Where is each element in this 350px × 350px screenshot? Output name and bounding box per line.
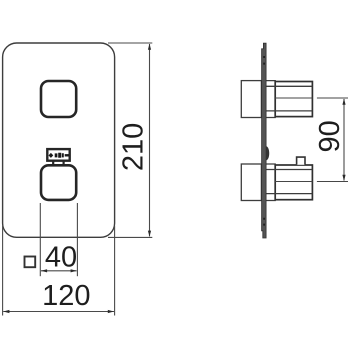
svg-text:120: 120 bbox=[42, 280, 90, 312]
handle H2 outer (lower, side view) bbox=[275, 165, 312, 200]
dimension 120 arrow right bbox=[108, 310, 114, 313]
front plate bbox=[3, 43, 115, 237]
temperature label plate L1 bbox=[47, 149, 69, 161]
knob K1 (upper square handle, front view) bbox=[41, 81, 76, 117]
wall plate profile bar bbox=[262, 43, 267, 238]
collar C2 (lower, side view) bbox=[266, 164, 275, 201]
dimension 210 arrow up bbox=[148, 44, 151, 50]
dimension 120 arrow left bbox=[3, 310, 9, 313]
dimension 40 arrow right bbox=[71, 269, 77, 272]
dimension 40 extension line right bbox=[76, 203, 78, 276]
handle H1 step lines bbox=[266, 86, 312, 111]
scale marks on label bbox=[55, 153, 64, 158]
dimension 40 line bbox=[41, 270, 77, 272]
svg-text:90: 90 bbox=[314, 120, 346, 152]
dimension 210 extension line top bbox=[108, 42, 152, 44]
tab on handle H2 bbox=[297, 157, 305, 165]
side view: valve body box B2 (lower, behind wall) bbox=[241, 164, 261, 201]
dimension 40 arrow left bbox=[41, 269, 47, 272]
dimension 210 arrow down bbox=[148, 231, 151, 237]
dimension 90 arrow up bbox=[342, 99, 345, 105]
collar C1 (upper, side view) bbox=[266, 81, 275, 118]
handle H2 step lines bbox=[266, 170, 312, 194]
dimension 90 arrow down bbox=[342, 175, 345, 181]
side view: valve body box B1 (upper, behind wall) bbox=[241, 81, 261, 118]
center/extension line lower (90 dim) bbox=[275, 181, 348, 183]
temperature button bump (side view) bbox=[266, 146, 269, 160]
handle H1 outer (upper, side view) bbox=[275, 82, 312, 117]
diamond mark on label bbox=[49, 153, 54, 158]
svg-text:40: 40 bbox=[45, 242, 77, 274]
dimension 120 extension line right bbox=[114, 226, 116, 316]
knob K2 (lower square handle, front view) bbox=[41, 165, 76, 200]
dimension 90 line bbox=[343, 99, 345, 181]
dash mark on label bbox=[65, 154, 69, 156]
svg-text:210: 210 bbox=[117, 123, 149, 171]
screw dots on wall plate bbox=[263, 56, 265, 226]
dimension 120 line bbox=[3, 311, 114, 313]
dimension 210 line bbox=[149, 44, 151, 236]
square-mount symbol bbox=[25, 257, 36, 268]
center/extension line upper (90 dim) bbox=[275, 97, 348, 99]
dimension 120 extension line left bbox=[2, 226, 4, 316]
tab between label and knob K2 bbox=[53, 161, 63, 165]
dimension 40 extension line left bbox=[39, 203, 41, 276]
dimension 210 extension line bottom bbox=[108, 236, 152, 238]
